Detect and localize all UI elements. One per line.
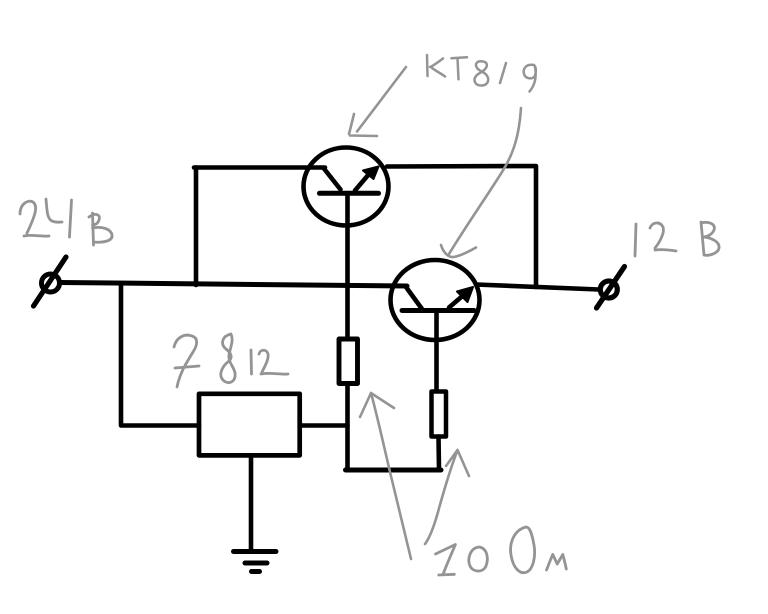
wire Q1 base drop	[345, 193, 350, 338]
label 10 Ohm	[436, 527, 567, 575]
annotation arrow to R1	[360, 393, 411, 559]
resistor R2	[432, 392, 447, 437]
wire ground lead	[249, 457, 254, 552]
regulator U1 7812	[199, 394, 300, 456]
resistor R1	[339, 339, 358, 384]
wire top rail right	[387, 166, 536, 287]
ground	[234, 552, 277, 572]
annotation arrow to R2	[425, 450, 469, 544]
transistor Q1 KT819	[304, 148, 389, 226]
wire left riser	[194, 168, 199, 286]
label 24V input	[20, 199, 112, 245]
wire top rail left	[194, 165, 325, 170]
wire U1 output	[302, 423, 348, 428]
terminal input 24V	[34, 257, 67, 306]
annotation arrow to Q1	[349, 67, 406, 136]
annotation arrow to Q2	[441, 108, 521, 257]
label 12V output	[635, 222, 719, 256]
wire 7812 input drop	[121, 283, 199, 426]
wire bottom node	[346, 468, 442, 473]
transistor Q2 KT819	[391, 260, 480, 340]
wire Q2 base drop	[434, 311, 439, 391]
label 7812	[174, 334, 288, 387]
wire output to 12V	[476, 285, 599, 290]
terminal output 12V	[597, 267, 625, 309]
wire R2 bottom lead	[436, 437, 441, 471]
wire main 24V rail	[60, 283, 407, 287]
wire R1 bottom lead	[345, 384, 350, 470]
label KT819	[427, 55, 536, 92]
